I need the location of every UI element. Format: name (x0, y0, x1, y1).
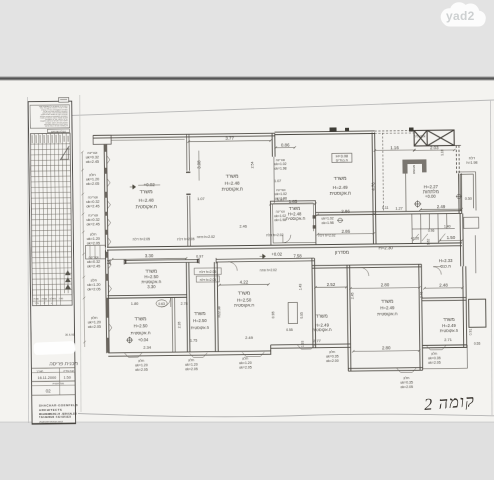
svg-text:R22.38: R22.38 (217, 306, 221, 317)
paper fold line right of title strip (80, 95, 81, 412)
svg-text:מפלס: מפלס (50, 296, 57, 300)
terrace edge line bottom right (423, 367, 468, 370)
small label box top (59, 98, 69, 103)
svg-text:ok=2.05: ok=2.05 (185, 367, 198, 371)
svg-text:ok=1.98: ok=1.98 (275, 197, 287, 201)
top wall dashed continuation (375, 130, 414, 132)
svg-text:yad2: yad2 (446, 9, 475, 23)
svg-text:uk=1.20: uk=1.20 (135, 363, 148, 367)
left wall window piers (104, 144, 107, 152)
bottom header row of grid (34, 296, 64, 305)
svg-text:משרד: משרד (334, 176, 347, 182)
yad2 watermark cloud (441, 2, 486, 26)
svg-text:ח.אקוסטית: ח.אקוסטית (286, 216, 306, 221)
svg-text:ok=2.05: ok=2.05 (87, 288, 100, 292)
svg-text:וטרינה: וטרינה (88, 213, 98, 217)
stair poche (402, 159, 426, 173)
dim 2.49 lockers (419, 208, 462, 211)
svg-text:קומה: קומה (42, 297, 48, 300)
dim 3.77 (187, 139, 271, 142)
corridor door leaf marks (126, 259, 198, 264)
R1 level flag (130, 185, 136, 189)
building top wall right section (275, 131, 375, 135)
svg-text:משרד: משרד (238, 290, 251, 296)
entry porch rect (85, 245, 105, 259)
svg-text:2.80: 2.80 (381, 282, 390, 287)
svg-text:uk=1.02: uk=1.02 (322, 216, 334, 220)
bottom wall segment R8 (422, 345, 467, 348)
svg-text:0.91: 0.91 (468, 329, 472, 336)
right outer wall upper dashed (456, 145, 459, 173)
paper right edge (491, 100, 493, 415)
svg-text:ok=2.45: ok=2.45 (86, 160, 99, 164)
svg-text:משרד: משרד (443, 317, 455, 322)
svg-text:ח.אקוסטית: ח.אקוסטית (312, 327, 332, 332)
boxed label H=3.08 (332, 153, 352, 162)
svg-text:T.02-6223323 F.02-6251323: T.02-6223323 F.02-6251323 (39, 417, 72, 419)
bottom wall jog A-B (270, 345, 272, 354)
svg-text:1.07: 1.07 (274, 179, 281, 183)
dim 0.86 (275, 146, 296, 149)
corridor door jambs (110, 258, 216, 265)
svg-text:ARCHITECTS: ARCHITECTS (39, 408, 62, 412)
building top wall left section (93, 133, 275, 138)
svg-text:ח.אקוסטית: ח.אקוסטית (136, 204, 157, 209)
balcony boxes right (464, 217, 479, 228)
svg-text:וטרינה: וטרינה (89, 255, 99, 259)
wall shaft-L3 vertical (186, 262, 190, 352)
door arc conf (433, 267, 441, 275)
svg-text:מ"ר: מ"ר (35, 301, 39, 305)
right wall shaft (458, 172, 476, 211)
wall R1-R2 (186, 134, 190, 246)
bottom gray band (0, 422, 494, 480)
vitrine partition R2-R3 (273, 157, 276, 203)
grid row lines (31, 149, 72, 290)
top wall elevator to right wall (454, 144, 461, 146)
svg-text:+2.26: +2.26 (411, 236, 420, 240)
svg-text:סהכ: סהכ (59, 297, 64, 300)
svg-text:ח.אקוסטית: ח.אקוסטית (377, 311, 398, 316)
svg-text:WALDENBERG 24 JERUSALEM: WALDENBERG 24 JERUSALEM (39, 413, 77, 416)
areas grid table (30, 133, 72, 305)
svg-text:2.46: 2.46 (419, 292, 423, 299)
right outer wall below shaft (459, 173, 462, 213)
svg-text:ok=2.05: ok=2.05 (87, 242, 100, 246)
svg-text:משרד: משרד (316, 314, 328, 319)
svg-text:ok=2.05: ok=2.05 (86, 182, 99, 186)
svg-text:פתח h=2.02: פתח h=2.02 (197, 235, 215, 239)
svg-text:דלת h=2.05: דלת h=2.05 (199, 270, 216, 274)
svg-text:uk=1.20: uk=1.20 (185, 363, 198, 367)
svg-text:ח.אקוסטית: ח.אקוסטית (330, 191, 351, 196)
svg-text:ok=2.45: ok=2.45 (86, 205, 99, 209)
bottom wall segment M2 (348, 368, 422, 372)
paper left edge (28, 97, 29, 423)
notes paragraph box (30, 105, 70, 128)
svg-text:ok=1.98: ok=1.98 (274, 167, 286, 171)
toilet stall dividers (412, 213, 455, 243)
svg-text:uk=0.35: uk=0.35 (326, 354, 339, 358)
porch step lines (90, 245, 100, 259)
svg-text:וטרינה: וטרינה (87, 151, 97, 155)
svg-text:1.93: 1.93 (300, 340, 304, 347)
svg-text:משרד: משרד (226, 173, 239, 179)
shaft benchmark circle (456, 194, 462, 198)
svg-text:ח.בגדים: ח.בגדים (336, 158, 349, 162)
dim 2.03 (413, 149, 455, 152)
elevator block (414, 130, 454, 146)
svg-text:02: 02 (46, 388, 52, 393)
svg-text:דלת h=2.05: דלת h=2.05 (133, 237, 151, 241)
svg-text:0.55: 0.55 (474, 342, 481, 346)
svg-text:ח.אקוסטית: ח.אקוסטית (234, 302, 255, 307)
svg-text:חלון: חלון (91, 278, 98, 282)
svg-text:ח.אקוסטית: ח.אקוסטית (440, 328, 459, 333)
svg-text:ok=2.05: ok=2.05 (428, 361, 441, 365)
room R6 box (270, 201, 316, 246)
svg-text:1.80: 1.80 (131, 302, 138, 306)
door arc R6 (283, 235, 291, 243)
svg-text:קנה מידה: קנה מידה (63, 369, 74, 372)
dim 2.86 lower (317, 232, 375, 235)
dim 1.50 toilets (439, 239, 463, 242)
svg-text:פתח h=2.02: פתח h=2.02 (260, 268, 277, 272)
svg-text:חלון: חלון (89, 173, 96, 177)
svg-text:ok=2.45: ok=2.45 (87, 265, 100, 269)
section mark triangle top (60, 146, 70, 160)
svg-text:H=2.50: H=2.50 (133, 323, 148, 328)
table header label (48, 129, 70, 133)
svg-text:30.6.99: 30.6.99 (65, 333, 75, 337)
svg-text:חלון: חלון (242, 357, 249, 361)
svg-text:uk=0.32: uk=0.32 (86, 155, 99, 159)
bottom windows ticks (124, 353, 142, 358)
svg-text:ח.אקוסטית: ח.אקוסטית (191, 325, 210, 330)
svg-text:2.78: 2.78 (181, 302, 188, 306)
L2 level flag (126, 337, 133, 344)
left outer wall (104, 144, 108, 247)
svg-text:ok=2.05: ok=2.05 (135, 368, 148, 372)
svg-text:1:50: 1:50 (64, 376, 71, 380)
svg-text:ח.אקוסטית: ח.אקוסטית (131, 330, 151, 335)
svg-text:ח.אקוסטית: ח.אקוסטית (222, 186, 243, 191)
svg-text:0.96: 0.96 (428, 229, 434, 233)
svg-text:H=2.49: H=2.49 (380, 305, 395, 310)
svg-text:חלון: חלון (329, 350, 336, 354)
wall conf-R8 horizontal (422, 298, 467, 301)
svg-text:ok=2.00: ok=2.00 (326, 359, 339, 363)
R4 benchmark symbol (414, 200, 421, 207)
svg-text:ok=2.45: ok=2.45 (87, 223, 100, 227)
yad2 watermark (441, 2, 486, 26)
svg-text:משרד: משרד (134, 317, 146, 322)
svg-text:0.97: 0.97 (196, 254, 203, 258)
svg-text:חלון: חלון (91, 316, 98, 320)
svg-text:מסדרון: מסדרון (335, 251, 349, 256)
title strip outer border (28, 101, 75, 424)
svg-text:חלון: חלון (90, 232, 97, 236)
corridor bottom wall right (312, 264, 421, 268)
svg-text:H=2.49: H=2.49 (333, 185, 348, 190)
top gray band (0, 0, 494, 78)
svg-text:וטרינה: וטרינה (88, 195, 98, 199)
svg-text:H=2.48: H=2.48 (225, 180, 240, 185)
hall wall below stair (405, 174, 407, 212)
svg-text:0.11: 0.11 (382, 206, 389, 210)
svg-text:h=1.98: h=1.98 (466, 161, 477, 165)
svg-text:1.85: 1.85 (289, 199, 298, 204)
svg-text:H=2.48: H=2.48 (139, 198, 154, 203)
svg-text:2.45: 2.45 (350, 292, 354, 299)
svg-text:2.86: 2.86 (341, 209, 350, 214)
svg-text:חלון: חלון (404, 376, 411, 380)
svg-text:חלון: חלון (188, 358, 195, 362)
wall L3-L4 vertical (214, 262, 218, 352)
left dimension chain line (82, 152, 84, 347)
svg-text:0.86: 0.86 (281, 142, 290, 147)
svg-text:0.95: 0.95 (271, 311, 275, 318)
svg-text:uk=1.20: uk=1.20 (239, 361, 252, 365)
wall M2-R8 vertical (419, 264, 423, 370)
left outer wall lower (105, 250, 109, 353)
svg-text:2.49: 2.49 (245, 335, 254, 340)
svg-text:0.50: 0.50 (465, 197, 472, 201)
svg-text:1.07: 1.07 (197, 197, 204, 201)
svg-text:3.77: 3.77 (225, 136, 234, 141)
wall R2-R3 upper (272, 133, 275, 156)
svg-text:תכנית פריסה: תכנית פריסה (49, 361, 78, 367)
dim 2.52 M1 (314, 286, 347, 289)
svg-text:משרד: משרד (381, 299, 394, 305)
svg-text:4.76: 4.76 (371, 182, 376, 191)
right outer wall lower (463, 266, 467, 348)
wall M1-M2 vertical (347, 265, 351, 371)
svg-text:+0.02: +0.02 (271, 252, 282, 257)
svg-text:3.30: 3.30 (145, 253, 154, 258)
circle 0.63 (156, 300, 167, 307)
corridor level flag (260, 254, 266, 258)
svg-text:uk=0.32: uk=0.32 (86, 218, 99, 222)
svg-text:ok=2.05: ok=2.05 (239, 365, 252, 369)
svg-text:ok=1.98: ok=1.98 (274, 218, 286, 222)
svg-text:4.22: 4.22 (240, 280, 249, 285)
toilet stall door leaves (413, 234, 446, 241)
svg-text:משרד: משרד (140, 189, 153, 195)
top wall window sill line (111, 138, 184, 141)
svg-text:uk=1.20: uk=1.20 (88, 320, 101, 324)
date/scale table (31, 368, 75, 396)
svg-text:H=2.30: H=2.30 (379, 245, 394, 250)
svg-text:קומה 2: קומה 2 (423, 391, 475, 414)
wall L2 right vertical (171, 297, 174, 352)
svg-text:uk=0.32: uk=0.32 (87, 260, 100, 264)
wall L1-L2 horizontal (108, 295, 187, 299)
right column rect outside (469, 299, 486, 327)
architect info block (39, 403, 79, 423)
svg-text:uk=0.35: uk=0.35 (428, 356, 441, 360)
dim 2.80 M2 bottom (352, 349, 420, 352)
svg-text:1.40: 1.40 (444, 224, 451, 228)
svg-text:1.16: 1.16 (390, 145, 399, 150)
dim 3.30 corridor side (111, 257, 187, 260)
svg-text:משרד: משרד (194, 311, 206, 316)
dashed shaft line (382, 133, 385, 211)
svg-text:1.50: 1.50 (447, 235, 456, 240)
structural columns top (330, 127, 337, 132)
svg-text:uk=0.35: uk=0.35 (400, 381, 413, 385)
svg-text:uk=1.20: uk=1.20 (86, 177, 99, 181)
dark separator line (0, 77, 494, 80)
svg-text:uk=1.20: uk=1.20 (87, 283, 100, 287)
svg-text:תאריך: תאריך (36, 370, 43, 373)
svg-text:+0.00: +0.00 (425, 194, 436, 199)
dim 1.85 (269, 202, 316, 205)
top-left pier bump (93, 135, 111, 144)
svg-text:+0.04: +0.04 (138, 337, 149, 342)
svg-text:2.52: 2.52 (327, 282, 336, 287)
dim 2.80 M2 top (349, 286, 420, 289)
dim 2.48 conf (423, 287, 463, 290)
svg-text:א.מעלית: א.מעלית (414, 134, 426, 138)
white-out blob (33, 341, 75, 355)
svg-text:3.30: 3.30 (147, 284, 156, 289)
svg-text:2.77: 2.77 (313, 338, 322, 343)
svg-text:2.03: 2.03 (430, 145, 439, 150)
svg-text:2.54: 2.54 (250, 161, 254, 168)
svg-text:שטח: שטח (34, 298, 39, 301)
paper background (0, 78, 494, 423)
svg-text:1.27: 1.27 (395, 207, 402, 211)
svg-text:מס' תכנית: מס' תכנית (53, 381, 65, 385)
dim 1.16 (374, 149, 416, 152)
svg-text:1.75: 1.75 (190, 338, 197, 342)
svg-text:2.86: 2.86 (341, 229, 350, 234)
svg-text:חלון: חלון (138, 359, 145, 363)
svg-text:0.55: 0.55 (286, 328, 293, 332)
dim 2.86 upper (316, 213, 374, 216)
svg-text:16.11.2000: 16.11.2000 (38, 376, 57, 380)
dim 4.22 (218, 283, 269, 286)
svg-text:דלת h=2.02: דלת h=2.02 (266, 233, 284, 237)
svg-text:1.62: 1.62 (426, 238, 430, 244)
corridor bottom wall left (107, 258, 314, 263)
lockers south wall (316, 211, 463, 215)
closet shaft left of M1 (288, 302, 297, 323)
svg-text:1.43: 1.43 (298, 284, 302, 291)
svg-text:2.80: 2.80 (382, 345, 391, 350)
paper bottom edge (78, 414, 494, 417)
svg-text:דלת h=2.05: דלת h=2.05 (177, 237, 195, 241)
svg-text:אין לשנות תכנית זו ללא אישור: אין לשנות תכנית זו ללא אישור (44, 124, 68, 127)
svg-text:2.34: 2.34 (143, 345, 152, 350)
wall L4-M1 vertical (312, 258, 316, 348)
rotated column headers (32, 135, 69, 143)
door arc L4 (228, 262, 237, 271)
svg-text:1.18: 1.18 (440, 149, 444, 155)
R1-R2 door leaf marks (186, 172, 191, 194)
door boxed label L3 (194, 268, 221, 275)
door arc M2 (360, 267, 369, 276)
svg-text:דלת h=2.02: דלת h=2.02 (318, 234, 336, 238)
svg-text:ok=2.05: ok=2.05 (400, 385, 413, 389)
svg-text:ח.כנס: ח.כנס (440, 263, 451, 268)
svg-text:2.46: 2.46 (239, 225, 246, 229)
R6 mullion squares (313, 215, 316, 218)
door arc L2 (161, 297, 171, 307)
svg-text:2.71: 2.71 (444, 337, 453, 342)
svg-text:0.95: 0.95 (300, 312, 304, 319)
svg-text:uk=0.32: uk=0.32 (86, 200, 99, 204)
svg-text:חלון: חלון (431, 352, 438, 356)
svg-text:uk=1.20: uk=1.20 (87, 237, 100, 241)
svg-text:מבואה: מבואה (412, 165, 416, 174)
right outer extra line (474, 235, 476, 273)
svg-text:2.49: 2.49 (437, 204, 446, 209)
svg-text:ok=2.05: ok=2.05 (88, 325, 101, 329)
corridor top wall (107, 243, 462, 250)
svg-text:H=2.50: H=2.50 (193, 318, 207, 323)
right outer wall mid (460, 213, 463, 266)
wall lobby-lockers vertical (372, 132, 376, 244)
svg-text:7.58: 7.58 (293, 253, 302, 258)
triangles middle (65, 270, 71, 289)
svg-text:טבלת שטחים: טבלת שטחים (51, 129, 66, 133)
svg-text:ok=1.98: ok=1.98 (322, 221, 334, 225)
paper top edge (57, 100, 494, 116)
svg-text:2.48: 2.48 (439, 282, 448, 287)
bottom wall segment A (108, 351, 271, 356)
svg-text:2.35: 2.35 (177, 321, 181, 328)
bottom wall segment B (271, 344, 351, 348)
svg-text:0.63: 0.63 (158, 302, 165, 306)
left wall window ticks (107, 156, 110, 164)
door boxed label L4 (196, 276, 219, 282)
svg-text:דלת h=2.05: דלת h=2.05 (200, 278, 217, 282)
svg-text:דלת: דלת (469, 156, 475, 160)
svg-text:H=2.33: H=2.33 (439, 258, 453, 263)
